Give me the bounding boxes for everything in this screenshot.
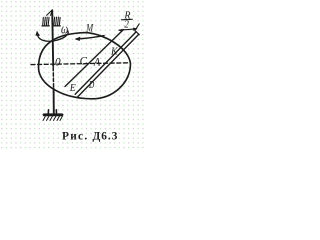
dimension extension tick [135,24,139,31]
caption [62,130,118,142]
svg-text:0: 0 [55,56,61,68]
R/2 dimension line [119,29,137,30]
shaft lower solid [53,89,55,114]
moment M arrowhead [75,37,81,41]
channel right wall [78,34,139,96]
fraction bar [121,18,132,21]
channel left wall [75,32,136,95]
svg-text:2: 2 [124,20,129,31]
bottom support ticks [48,110,56,114]
svg-text:Д6.3: Д6.3 [93,130,119,142]
channel end cap [136,31,140,34]
chord line E-K extended [65,30,124,87]
svg-text:M: M [86,23,95,35]
omega arc arrowhead [35,31,40,36]
svg-text:K: K [110,45,118,57]
shaft top arrow [47,10,53,16]
svg-text:ω: ω [61,22,68,38]
bottom support hatching [43,116,63,121]
svg-text:D: D [88,80,94,91]
dimension left arrowhead [118,29,122,32]
ellipse plate [39,33,131,99]
dashed diameter line [31,63,129,65]
dimension right arrowhead [133,28,137,31]
svg-text:A: A [93,56,101,68]
shaft upper solid [52,11,53,67]
svg-text:Рис.: Рис. [62,130,88,142]
dotted scan background [0,0,144,150]
top bearing left block [42,17,49,26]
svg-text:E: E [69,82,76,94]
top bearing right block [53,17,60,26]
bottom support bar [44,113,62,116]
shaft hidden dashed [52,68,54,89]
arrowheads (filled) [35,28,137,42]
labels [55,10,131,93]
moment M arc [77,36,105,39]
omega rotation arc [38,31,69,41]
svg-text:C: C [80,55,88,67]
